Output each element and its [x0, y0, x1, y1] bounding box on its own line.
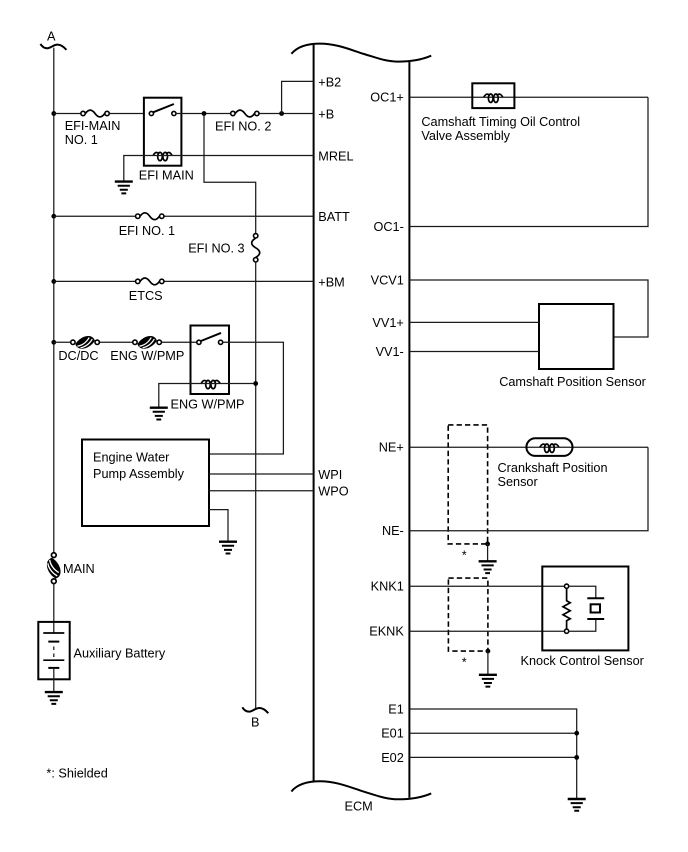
svg-text:MAIN: MAIN: [63, 562, 95, 576]
svg-text:*: *: [462, 549, 467, 563]
knock sensor resistor: [563, 588, 570, 629]
connector A symbol: [40, 44, 66, 50]
battery cell dashes: [53, 647, 55, 658]
svg-text:OC1-: OC1-: [373, 220, 403, 234]
relay ENG W/PMP coil: [201, 380, 220, 388]
wire WPO: [209, 490, 314, 492]
wire WPI: [209, 473, 314, 475]
wire NE+: [409, 446, 648, 448]
svg-text:OC1+: OC1+: [370, 91, 404, 105]
fusible link ENG W/PMP: [133, 336, 162, 349]
svg-text:Knock Control Sensor: Knock Control Sensor: [521, 654, 645, 668]
svg-text:EFI-MAIN: EFI-MAIN: [65, 119, 121, 133]
oil control valve coil: [484, 94, 503, 102]
svg-text:+B2: +B2: [318, 76, 341, 90]
svg-text:VV1-: VV1-: [376, 345, 404, 359]
fuse EFI NO. 2: [231, 110, 259, 117]
relay EFI MAIN coil: [153, 152, 172, 160]
junction BATT row on bus: [51, 214, 56, 219]
svg-text:EFI NO. 1: EFI NO. 1: [119, 224, 175, 238]
junction E01: [574, 731, 579, 736]
fusible link DC/DC: [71, 336, 100, 349]
svg-text:EFI NO. 2: EFI NO. 2: [215, 119, 271, 133]
svg-text:WPI: WPI: [318, 468, 342, 482]
svg-text:*: *: [462, 656, 467, 670]
svg-text:ETCS: ETCS: [129, 289, 163, 303]
ECM body right edge: [408, 62, 410, 798]
svg-text:ECM: ECM: [345, 800, 373, 814]
fuse EFI NO. 1: [136, 213, 164, 220]
ECM body left edge: [313, 45, 315, 783]
svg-text:NO. 1: NO. 1: [65, 133, 98, 147]
knock sensor piezo element: [569, 586, 596, 631]
battery plate long top: [43, 632, 64, 634]
wire valve to right rail: [409, 97, 648, 226]
ground below pump assembly: [219, 542, 237, 554]
ground below battery: [45, 692, 63, 704]
wire +B2 branch: [282, 81, 314, 113]
crankshaft position sensor stadium: [526, 438, 572, 456]
svg-text:+BM: +BM: [318, 275, 344, 289]
wire VV1+: [409, 321, 539, 323]
svg-text:Camshaft Position Sensor: Camshaft Position Sensor: [499, 375, 646, 389]
wire NE loop: [409, 447, 648, 531]
wire E1: [409, 709, 576, 799]
wire VV1-: [409, 351, 539, 353]
svg-text:ENG W/PMP: ENG W/PMP: [171, 397, 245, 411]
fusible link MAIN vertical: [47, 553, 61, 584]
svg-text:EFI NO. 3: EFI NO. 3: [188, 241, 244, 255]
wire main battery bus vertical: [53, 48, 55, 556]
junction KNK shield drain: [486, 649, 491, 654]
knock sensor contact top: [565, 584, 569, 588]
ECM bottom torn edge: [291, 781, 431, 799]
wire link to battery: [53, 583, 55, 633]
ground below ENG W/PMP relay: [150, 408, 168, 420]
junction after relay: [202, 111, 207, 116]
knock sensor contact bottom: [565, 629, 569, 633]
wire EKNK: [409, 630, 564, 632]
wire OC1+ stub: [409, 96, 648, 98]
wire KNK shield drain: [487, 651, 489, 675]
svg-text:E01: E01: [381, 727, 404, 741]
wire ETCS row to ECM +BM: [54, 280, 314, 282]
svg-text:Crankshaft Position: Crankshaft Position: [498, 461, 608, 475]
svg-text:EKNK: EKNK: [369, 624, 404, 638]
svg-text:VV1+: VV1+: [372, 316, 403, 330]
svg-text:Pump Assembly: Pump Assembly: [93, 467, 185, 481]
svg-text:NE-: NE-: [382, 524, 404, 538]
ground NE shield: [479, 561, 497, 573]
wire pump ground stub: [209, 510, 228, 542]
ECM top torn edge: [291, 44, 431, 62]
relay EFI MAIN contact left: [149, 111, 153, 115]
svg-text:Engine Water: Engine Water: [93, 451, 170, 465]
wire relay through fuse EFI NO. 2 to ECM +B: [176, 113, 314, 115]
svg-text:A: A: [47, 29, 56, 43]
svg-text:ENG W/PMP: ENG W/PMP: [110, 349, 184, 363]
wire MREL row with ground stub: [124, 156, 314, 182]
camshaft timing oil control valve box: [472, 83, 514, 108]
svg-text:E1: E1: [388, 702, 404, 716]
battery plate long bottom: [43, 659, 64, 661]
svg-text:WPO: WPO: [318, 485, 348, 499]
wire jog from +B junction down: [204, 114, 256, 234]
junction coil to B line: [253, 381, 258, 386]
relay ENG W/PMP box: [191, 326, 230, 395]
svg-text:NE+: NE+: [379, 441, 404, 455]
wire relay coil row to B line with ground stub: [159, 384, 256, 408]
ground KNK shield: [479, 675, 497, 687]
junction +B2 branch: [279, 111, 284, 116]
engine water pump assembly box: [82, 440, 209, 527]
shield box NE dashed: [448, 425, 487, 544]
wire KNK1: [409, 585, 564, 587]
wire E01: [409, 732, 576, 734]
connector B symbol: [242, 707, 268, 713]
fuse EFI-MAIN NO. 1: [81, 110, 109, 117]
svg-text:BATT: BATT: [318, 210, 350, 224]
relay ENG W/PMP contact right: [219, 340, 223, 344]
ground below EFI MAIN relay: [115, 182, 133, 194]
svg-text:VCV1: VCV1: [371, 273, 404, 287]
junction DC/DC row on bus: [51, 340, 56, 345]
svg-text:DC/DC: DC/DC: [58, 349, 98, 363]
relay EFI MAIN contact right: [172, 111, 176, 115]
svg-text:Camshaft Timing Oil Control: Camshaft Timing Oil Control: [421, 115, 580, 129]
battery plate short thick bottom: [48, 667, 59, 669]
svg-text:*: Shielded: *: Shielded: [46, 767, 107, 781]
svg-text:E02: E02: [381, 751, 404, 765]
fuse EFI NO. 3 vertical: [252, 234, 260, 262]
svg-text:Sensor: Sensor: [498, 475, 539, 489]
svg-text:MREL: MREL: [318, 150, 353, 164]
camshaft position sensor box: [539, 304, 614, 369]
junction +B row on bus: [51, 111, 56, 116]
fuse ETCS: [136, 278, 164, 285]
wire battery to ground: [53, 668, 55, 692]
wire relay switch to pump feed: [209, 342, 283, 454]
junction ETCS row on bus: [51, 279, 56, 284]
svg-text:B: B: [251, 715, 259, 729]
svg-text:Auxiliary Battery: Auxiliary Battery: [74, 646, 166, 660]
auxiliary battery box: [38, 622, 69, 679]
relay EFI MAIN switch blade: [153, 104, 174, 112]
ground ECM E lines: [568, 799, 586, 811]
svg-text:+B: +B: [318, 107, 334, 121]
crankshaft sensor coil: [540, 444, 559, 452]
junction E02: [574, 755, 579, 760]
relay EFI MAIN box: [144, 98, 182, 166]
junction NE shield drain: [485, 542, 490, 547]
wire EFI NO.3 down to connector B: [255, 262, 257, 709]
svg-text:KNK1: KNK1: [371, 580, 404, 594]
shield box KNK dashed: [448, 578, 488, 651]
relay ENG W/PMP switch blade: [201, 333, 221, 341]
relay ENG W/PMP contact left: [197, 340, 201, 344]
wire DC/DC row bus to relay: [54, 341, 199, 343]
knock control sensor box: [542, 567, 628, 651]
battery plate short thick: [48, 641, 59, 643]
wire NE shield drain: [487, 544, 489, 561]
wire BATT row: [54, 215, 314, 217]
wire E02: [409, 756, 576, 758]
wire +B row bus to relay: [54, 113, 144, 115]
wire VCV1 loop: [409, 280, 648, 337]
svg-text:EFI MAIN: EFI MAIN: [139, 169, 194, 183]
svg-text:Valve Assembly: Valve Assembly: [421, 129, 510, 143]
